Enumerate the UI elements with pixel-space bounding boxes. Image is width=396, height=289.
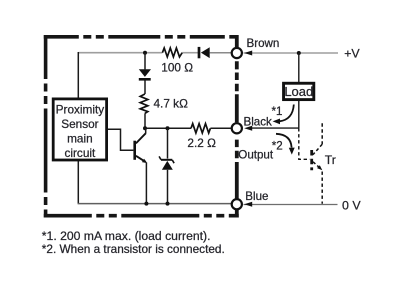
resistor 100 ohm (R1) [162, 48, 182, 57]
svg-text:*1. 200 mA max. (load current): *1. 200 mA max. (load current). [42, 229, 211, 243]
terminal Black (circle) [232, 123, 242, 133]
terminal Brown (circle) [232, 48, 242, 58]
curved arrow *1 (load current path) [273, 105, 294, 125]
sensor enclosure dashed border right edge (terminal rail) [235, 35, 239, 218]
sensor enclosure dashed border bottom edge [44, 214, 239, 218]
svg-text:Output: Output [238, 149, 274, 162]
svg-text:Load: Load [284, 84, 313, 99]
curved arrow *2 (to external transistor) [276, 134, 295, 155]
svg-text:2.2 Ω: 2.2 Ω [187, 136, 216, 150]
svg-text:Blue: Blue [245, 190, 268, 203]
junction dot mid node at collector [143, 126, 147, 130]
svg-text:+V: +V [344, 46, 360, 60]
transistor Q1 (NPN) [135, 128, 148, 163]
+V supply line [244, 52, 339, 54]
junction dot zener at ground rail [166, 202, 170, 206]
svg-text:Proximity: Proximity [56, 103, 105, 117]
wire: top-left gray segment to 100 ohm resistor [78, 52, 162, 54]
wire: zener anode down to ground rail [167, 170, 169, 204]
resistor 4.7 kilohm (R2, vertical) [140, 94, 148, 113]
svg-text:0 V: 0 V [342, 199, 361, 213]
wire: internal ground rail [78, 203, 232, 205]
external transistor Tr (dashed NPN) [312, 123, 323, 204]
wire: diode to Brown terminal [210, 52, 232, 54]
wire: diode D2 to resistor 4.7k [144, 81, 146, 95]
svg-text:*2. When a transistor is conne: *2. When a transistor is connected. [42, 242, 225, 256]
wire: circuit box output to transistor base [107, 129, 133, 150]
svg-text:Sensor: Sensor [61, 117, 98, 131]
junction dot emitter at ground rail [144, 202, 148, 206]
wire: resistor 4.7k down to mid node [144, 113, 146, 128]
wire: gray segment between 100 ohm resistor and diode [182, 52, 198, 54]
dashed wire: output to external transistor base [299, 128, 310, 159]
zener diode ZD1 (cathode up) [159, 156, 174, 169]
sensor enclosure dashed border top edge [44, 35, 239, 39]
wire: circuit box bottom to ground rail [77, 161, 79, 204]
svg-text:4.7 kΩ: 4.7 kΩ [154, 96, 189, 110]
svg-text:*2: *2 [272, 140, 283, 153]
diode D1 (series, cathode left, on top wire) [199, 47, 210, 58]
wire: Q1 emitter down to ground rail [145, 163, 147, 204]
proximity sensor main circuit box U1 [53, 99, 106, 160]
junction dot at top branch node [143, 51, 147, 55]
arrow into Black terminal [244, 126, 252, 131]
wire: output line from Load branch to Black terminal [252, 127, 299, 129]
svg-text:circuit: circuit [64, 146, 96, 160]
wire: +V line down to Load [298, 53, 300, 82]
diode D2 (vertical, cathode down) [139, 69, 151, 79]
junction dot on +V line at load branch [297, 51, 301, 55]
wire: resistor 2.2 ohm to Black terminal [210, 127, 231, 129]
load box [284, 83, 314, 99]
wire: Load down to output line [298, 101, 300, 129]
arrow into Blue terminal [244, 202, 252, 207]
svg-text:Black: Black [244, 116, 273, 129]
svg-text:Brown: Brown [247, 37, 280, 50]
svg-text:main: main [67, 131, 93, 145]
wire: mid node down to zener [167, 128, 169, 158]
wire: mid horizontal rail to 2.2 ohm resistor [145, 127, 191, 129]
0 V return line [244, 204, 338, 206]
svg-text:Tr: Tr [325, 153, 336, 167]
sensor enclosure dashed border left edge [44, 35, 48, 218]
junction dot mid node at zener [166, 126, 170, 130]
arrow into Brown terminal [244, 51, 252, 56]
wire: left vertical from top wire into circuit box [77, 52, 79, 98]
terminal Blue (circle) [232, 199, 242, 209]
wire: branch node down to diode D2 [144, 53, 146, 70]
svg-text:100 Ω: 100 Ω [161, 60, 193, 74]
resistor 2.2 ohm (R3) [191, 124, 210, 133]
svg-text:*1: *1 [272, 105, 283, 118]
